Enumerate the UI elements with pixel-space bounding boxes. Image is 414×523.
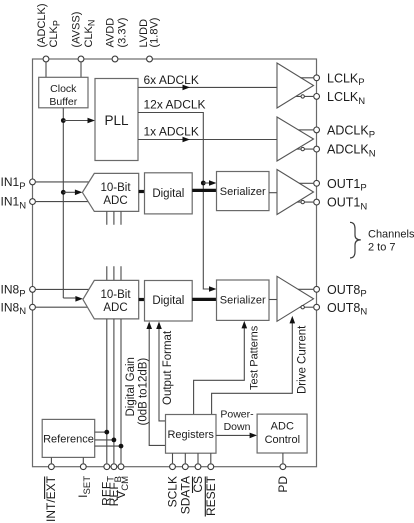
pin CLKP (top terminal circle) — [43, 56, 49, 62]
block ADC8 10-Bit ADC — [83, 280, 139, 319]
node junction clock to PLL — [61, 118, 66, 123]
wire SDATA pin to Registers — [184, 453, 186, 463]
pin OUT8P terminal — [314, 286, 320, 292]
pin LVDD (top terminal circle) — [147, 56, 153, 62]
pin IN8P terminal — [30, 287, 36, 293]
svg-text:Down: Down — [224, 421, 251, 433]
svg-text:Channels: Channels — [368, 228, 414, 240]
pin CLKN (top terminal circle) — [78, 56, 84, 62]
outer device boundary box — [33, 59, 317, 467]
wire Reference to VCM line — [95, 445, 121, 447]
block ADC1 10-Bit ADC — [82, 173, 138, 211]
pin CS terminal — [195, 464, 201, 470]
wire ADCLK true output — [298, 129, 313, 131]
node junction REFT — [104, 430, 109, 435]
pin IN1N terminal — [30, 199, 36, 205]
pin PD terminal — [280, 464, 286, 470]
wire REFT vertical ADC8 to bottom pin — [106, 319, 108, 463]
pin SCLK terminal — [170, 464, 176, 470]
svg-text:AVDD: AVDD — [105, 18, 117, 48]
svg-text:PD: PD — [276, 476, 290, 493]
block Registers — [166, 415, 217, 454]
wire Serializer1 to OUT1 buffer — [269, 192, 277, 194]
wire Test Patterns from Registers to Serializer2 with arrow — [194, 327, 245, 415]
svg-text:Digital: Digital — [152, 188, 184, 200]
buffer LCLK output driver triangle — [277, 63, 314, 108]
wire 12x ADCLK — [138, 113, 211, 290]
svg-text:10-Bit: 10-Bit — [100, 289, 131, 301]
pin IN8N terminal — [30, 304, 36, 310]
svg-text:ADC: ADC — [271, 421, 294, 433]
pin LCLKN terminal — [314, 94, 320, 100]
wire Reference to REFB line — [95, 439, 114, 441]
pin ISET terminal — [80, 464, 86, 470]
wire VCM vertical ADC8 to bottom pin — [120, 319, 122, 463]
wire ADCLK inverted output — [297, 148, 314, 150]
wire CLKN pin to Clock Buffer — [80, 62, 82, 77]
wire IN1N to ADC1 — [36, 201, 88, 203]
wire 12x ADCLK branch to Serializer1 — [203, 182, 210, 184]
wire clock to PLL with arrow — [63, 120, 88, 122]
wire REFB vertical ADC8 to bottom pin — [113, 319, 115, 463]
bus ADC1 to Digital1 — [139, 190, 145, 193]
wire 1x ADCLK — [138, 139, 277, 141]
svg-text:Clock: Clock — [50, 83, 77, 95]
wire OUT8 true output — [298, 288, 313, 290]
svg-text:Digital: Digital — [152, 295, 184, 307]
node junction REFB — [112, 438, 117, 443]
overline RESET — [204, 477, 206, 517]
pin VCM terminal — [118, 464, 124, 470]
wire Drive Current from Registers to OUT8 buffer with arrow — [212, 322, 293, 415]
svg-text:Serializer: Serializer — [220, 186, 266, 198]
wire Digital Gain from Registers to Digital2 with arrow — [149, 327, 165, 445]
wire 6x ADCLK — [138, 86, 277, 88]
svg-text:Reference: Reference — [43, 433, 94, 445]
svg-text:Output Format: Output Format — [162, 330, 174, 405]
svg-text:10-Bit: 10-Bit — [100, 182, 131, 194]
block Reference — [42, 419, 94, 457]
inversion bubble LCLKN — [301, 95, 304, 98]
wire LCLK inverted output — [296, 95, 313, 97]
wire IN1P to ADC1 — [36, 181, 89, 183]
wire Reference to REFT line — [95, 431, 107, 433]
svg-text:Serializer: Serializer — [220, 295, 266, 307]
block Clock Buffer — [39, 77, 88, 108]
label Digital Gain (0dB to 12dB) — [125, 357, 150, 425]
svg-text:(AVSS): (AVSS) — [71, 12, 83, 48]
svg-text:(3.3V): (3.3V) — [117, 18, 129, 48]
label pin (ADCLK) CLKP — [36, 3, 62, 47]
bus ADC8 to Digital2 — [139, 298, 145, 301]
svg-text:6x ADCLK: 6x ADCLK — [144, 73, 199, 87]
pin INT/EXT terminal — [49, 464, 55, 470]
node junction VCM — [119, 444, 124, 449]
wire CLKP pin to Clock Buffer — [45, 62, 47, 77]
block PLL — [95, 79, 138, 161]
pin SDATA terminal — [182, 464, 188, 470]
buffer OUT8 output driver triangle — [277, 276, 314, 321]
wire SCLK pin to Registers — [172, 453, 174, 463]
svg-text:PLL: PLL — [104, 113, 129, 128]
wire CS pin to Registers — [197, 453, 199, 463]
node junction clock to ADC1 — [61, 190, 66, 195]
svg-text:Power-: Power- — [220, 409, 254, 421]
svg-text:Drive Current: Drive Current — [297, 325, 309, 394]
pin OUT1N terminal — [314, 199, 320, 205]
wire OUT1 inverted output — [297, 201, 313, 203]
bus Digital1 to Serializer1 — [192, 189, 216, 192]
pin ADCLKN terminal — [314, 146, 320, 152]
label pin AVDD (3.3V) — [105, 18, 129, 48]
wire ADC1 reference stubs — [107, 211, 121, 224]
svg-text:RESET: RESET — [204, 475, 218, 516]
svg-text:ADC: ADC — [103, 195, 127, 207]
svg-text:(0dB to12dB): (0dB to12dB) — [138, 358, 150, 426]
svg-text:12x ADCLK: 12x ADCLK — [144, 98, 206, 112]
pin OUT1P terminal — [314, 180, 320, 186]
block ADC Control — [257, 414, 307, 453]
wire PD pin to ADC Control — [282, 453, 284, 463]
block Digital1 — [145, 173, 193, 214]
pin REFT terminal — [104, 464, 110, 470]
wire clock to ADC8 with arrow — [63, 297, 76, 299]
wire clock to ADC1 with arrow — [63, 191, 76, 193]
block Serializer2 — [217, 280, 270, 320]
svg-text:SCLK: SCLK — [166, 476, 180, 507]
brace Channels 2 to 7 — [350, 222, 361, 258]
wire IN8N to ADC8 — [36, 306, 88, 308]
label pin LVDD (1.8V) — [138, 18, 161, 48]
wire OUT8 inverted output — [300, 306, 313, 308]
svg-text:Control: Control — [265, 434, 300, 446]
svg-text:Registers: Registers — [167, 429, 214, 441]
pin LCLKP terminal — [314, 75, 320, 81]
label Power-Down — [220, 409, 254, 433]
svg-text:(ADCLK): (ADCLK) — [36, 3, 48, 47]
svg-text:Test Patterns: Test Patterns — [249, 325, 261, 390]
wire INT/EXT pin to Reference — [50, 457, 52, 463]
svg-text:Digital Gain: Digital Gain — [125, 357, 137, 416]
inversion bubble ADCLKN — [301, 147, 304, 150]
wire IN8P to ADC8 — [36, 288, 89, 290]
wire LCLK true output — [301, 77, 314, 79]
svg-text:2 to 7: 2 to 7 — [368, 241, 396, 253]
svg-text:INT/EXT: INT/EXT — [44, 475, 58, 522]
wire ISET pin to Reference — [82, 457, 84, 463]
wire RESET pin to Registers — [210, 453, 212, 463]
overline EXT — [44, 477, 46, 500]
wire Serializer2 to OUT8 buffer — [269, 299, 277, 301]
pin AVDD (top terminal circle) — [112, 56, 118, 62]
pin REFB terminal — [111, 464, 117, 470]
wire Power-Down Registers to ADC Control with arrow — [216, 434, 251, 436]
bus Digital2 to Serializer2 — [192, 298, 216, 301]
svg-text:ADC: ADC — [103, 302, 127, 314]
overline CS — [192, 477, 194, 494]
node junction 12x ADCLK to Serializer1 — [201, 181, 206, 186]
wire ADC8 reference stubs top — [107, 266, 121, 280]
inversion bubble OUT8N — [301, 306, 304, 309]
pin RESET terminal — [208, 464, 214, 470]
block Serializer1 — [217, 172, 270, 211]
inversion bubble OUT1N — [301, 200, 304, 203]
buffer ADCLK output driver triangle — [277, 117, 314, 161]
wire Output Format from Registers to Digital2 with arrow — [159, 327, 166, 421]
pin ADCLKP terminal — [314, 127, 320, 133]
block Digital2 — [145, 281, 193, 322]
svg-text:(1.8V): (1.8V) — [149, 18, 161, 48]
svg-text:1x ADCLK: 1x ADCLK — [144, 125, 199, 139]
label pin (AVSS) CLKN — [71, 12, 97, 48]
buffer OUT1 output driver triangle — [277, 170, 314, 215]
label Channels 2 to 7 — [368, 228, 414, 253]
svg-text:Buffer: Buffer — [49, 96, 77, 108]
wire clock distribution vertical from Clock Buffer — [62, 108, 64, 298]
wire OUT1 true output — [299, 182, 313, 184]
pin IN1P terminal — [30, 179, 36, 185]
pin OUT8N terminal — [314, 304, 320, 310]
